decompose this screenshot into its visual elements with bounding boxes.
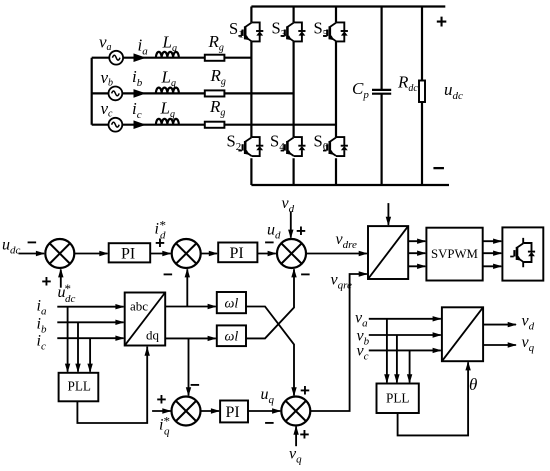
label id* reference [155, 218, 167, 242]
wire omega-l 1 cross to summer5 [246, 307, 297, 397]
svg-text:SVPWM: SVPWM [431, 247, 478, 261]
svg-text:abc: abc [130, 299, 148, 314]
wire SVPWM to inverter arrow 2 [483, 251, 503, 256]
svg-text:−: − [265, 233, 275, 252]
summer circle 2 (id error) [172, 239, 201, 268]
wire arrow into T1 top [386, 203, 391, 226]
capacitor Cp branch [381, 7, 383, 186]
svg-text:+: + [300, 425, 310, 444]
wire udc* input [58, 268, 63, 288]
wire bridge leg 1 [250, 7, 252, 186]
wire summer3 to T1 (v_dre) [306, 251, 368, 256]
resistor Rg phase c [205, 122, 225, 128]
wire bridge leg 3 [335, 7, 337, 186]
transistor S3 [281, 22, 306, 41]
wire phase b row [92, 92, 294, 94]
transistor S5 [323, 22, 348, 41]
svg-text:+: + [155, 234, 165, 253]
block PLL 1 [59, 373, 99, 402]
wire T1 to SVPWM arrow 3 [408, 264, 426, 269]
wire summer4 to PI3 [201, 408, 221, 413]
wire iq feedback to summer4 [186, 338, 191, 396]
wire va input [369, 316, 442, 321]
svg-text:+: + [157, 390, 167, 409]
svg-text:+: + [300, 381, 310, 400]
wire left AC bus [91, 58, 93, 125]
wire PLL1 output to abc/dq [77, 347, 149, 423]
svg-text:−: − [433, 157, 445, 180]
wire ib drop to PLL1 [75, 322, 80, 373]
resistor Rg phase a [205, 55, 225, 61]
transistor S4 [281, 137, 306, 156]
node phase a current arrow [134, 53, 147, 62]
svg-text:θ: θ [469, 375, 477, 394]
block SVPWM [426, 228, 482, 281]
svg-text:PI: PI [226, 404, 240, 421]
summer circle 4 (iq error) [172, 397, 201, 426]
wire vc drop to PLL2 [407, 350, 412, 383]
wire iq* input [152, 408, 171, 413]
wire phase c row [92, 124, 336, 126]
wire vd input [288, 212, 293, 239]
wire T2 vd output [483, 322, 517, 327]
wire SVPWM to inverter arrow 3 [483, 264, 503, 269]
svg-text:−: − [301, 265, 311, 284]
wire omega-l 2 cross to summer3 [246, 268, 297, 338]
svg-text:PLL: PLL [68, 379, 91, 394]
summer circle 1 (udc error) [45, 239, 74, 268]
wire PI2 to summer3 [257, 251, 276, 256]
wire PLL2 theta output to T2 [398, 361, 471, 435]
wire bridge leg 2 [293, 7, 295, 186]
svg-text:+: + [436, 12, 447, 33]
wire summer2 to PI2 [201, 251, 218, 256]
wire vc input [369, 348, 442, 353]
node phase c current arrow [134, 120, 147, 129]
wire abc/dq q output to omega-l 2 [165, 336, 217, 341]
wire PI3 to summer5 [248, 408, 281, 413]
wire ia drop to PLL1 [65, 307, 70, 373]
svg-text:PLL: PLL [386, 391, 409, 406]
svg-text:dq: dq [146, 328, 160, 343]
svg-text:ωl: ωl [225, 297, 239, 312]
block inverter (IGBT icon box) [502, 227, 543, 280]
summer circle 3 (ud sum) [277, 239, 306, 268]
wire bottom DC rail [251, 184, 449, 186]
wire udc input [19, 251, 46, 256]
svg-text:q: q [164, 426, 170, 438]
wire ic input [57, 336, 124, 341]
wire id feedback [185, 268, 190, 306]
transistor S2 [238, 137, 263, 156]
wire summer1 to PI1 [74, 251, 108, 256]
wire top DC rail [251, 5, 445, 7]
wire T2 vq output [483, 342, 517, 347]
block omega-l 2 [217, 325, 246, 346]
svg-text:PI: PI [121, 246, 135, 263]
svg-text:−: − [163, 265, 173, 284]
transistor S6 [323, 137, 348, 156]
wire abc/dq d output to omega-l 1 [165, 304, 217, 309]
block PLL 2 [377, 384, 419, 414]
svg-text:−: − [265, 414, 275, 433]
block dq/abc transform T1 [368, 226, 408, 279]
source va [109, 51, 123, 65]
label iq* reference [159, 414, 170, 438]
wire vb input [369, 332, 442, 337]
source vc [109, 118, 123, 132]
block PI 3 [220, 401, 248, 423]
resistor Rdc branch [421, 7, 423, 186]
inductor Lg phase c [156, 119, 179, 125]
inductor Lg phase b [156, 88, 179, 94]
block abc/dq transform T2 [442, 307, 483, 361]
wire vb drop to PLL2 [394, 335, 399, 384]
wire SVPWM to inverter arrow 1 [483, 239, 503, 244]
wire T1 to SVPWM arrow 2 [408, 251, 426, 256]
transistor S1 [238, 22, 263, 41]
svg-text:dc: dc [65, 293, 76, 305]
svg-text:−: − [190, 376, 200, 395]
svg-text:ωl: ωl [225, 330, 239, 345]
label udc* reference [58, 281, 76, 305]
source vb [109, 87, 123, 101]
block abc/dq transform [125, 293, 166, 346]
svg-text:−: − [27, 233, 37, 252]
wire summer5 output v_qre to T1 [310, 271, 368, 411]
wire phase a row [92, 57, 252, 59]
wire T1 to SVPWM arrow 1 [408, 239, 426, 244]
wire ib input [57, 320, 124, 325]
wire ia input [57, 304, 124, 309]
summer circle 5 (uq sum) [281, 397, 310, 426]
wire va drop to PLL2 [384, 319, 389, 384]
svg-text:+: + [42, 272, 52, 291]
node phase b current arrow [134, 89, 147, 98]
block PI 1 [109, 243, 151, 262]
resistor Rg phase b [205, 90, 225, 96]
wire ic drop to PLL1 [87, 338, 92, 373]
wire vq input [293, 426, 298, 447]
wire PI1 to summer2 [150, 251, 171, 256]
inductor Lg phase a [156, 52, 179, 58]
block omega-l 1 [217, 292, 246, 313]
svg-text:+: + [296, 222, 306, 241]
block PI 2 [218, 243, 257, 263]
transistor icon in inverter box [510, 238, 535, 267]
svg-text:PI: PI [230, 245, 244, 262]
